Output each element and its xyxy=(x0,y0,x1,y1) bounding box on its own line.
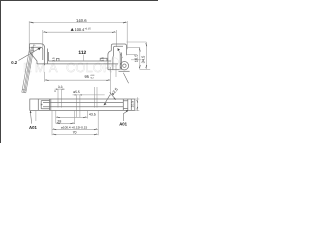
svg-text:3.5: 3.5 xyxy=(101,57,105,62)
svg-text:●5.5: ●5.5 xyxy=(73,90,80,94)
watermark ring xyxy=(110,58,118,66)
dim line 16.5 xyxy=(139,47,141,69)
bar right step tab xyxy=(100,58,107,61)
dim line 95 xyxy=(45,79,111,81)
page border left xyxy=(0,0,2,143)
plan left cap xyxy=(38,99,51,110)
svg-text:140.6: 140.6 xyxy=(76,18,87,23)
right ext lines xyxy=(127,41,147,43)
svg-text:COLOR: COLOR xyxy=(66,60,112,75)
front view right bracket xyxy=(111,44,126,55)
svg-text:10.5: 10.5 xyxy=(130,101,134,108)
plan view outline xyxy=(30,99,135,110)
plan right cap xyxy=(123,99,131,110)
svg-text:⌀100.4 +0.15/-0.15: ⌀100.4 +0.15/-0.15 xyxy=(61,125,87,129)
tilted side view xyxy=(22,45,36,93)
leader 0.2 xyxy=(19,48,41,61)
svg-text:34.5: 34.5 xyxy=(141,55,146,64)
right bracket eye xyxy=(120,61,128,69)
hole centerlines right xyxy=(95,87,97,108)
svg-text:9: 9 xyxy=(54,90,56,93)
svg-text:A01: A01 xyxy=(29,125,37,130)
page border top xyxy=(0,0,158,2)
svg-text:16.5: 16.5 xyxy=(133,54,138,63)
dim 10.5 right xyxy=(135,99,140,110)
dim line 100.4 xyxy=(43,31,116,33)
svg-text:⌀2.5: ⌀2.5 xyxy=(110,86,119,96)
dim line 140.6 xyxy=(29,22,127,24)
under-bar extension lines xyxy=(36,111,98,135)
dim 43.5 xyxy=(56,116,88,118)
svg-text:A01: A01 xyxy=(119,121,127,126)
svg-text:3.3: 3.3 xyxy=(58,85,63,89)
svg-text:70: 70 xyxy=(73,131,77,135)
svg-text:100.4+0.15: 100.4+0.15 xyxy=(75,27,92,32)
front view bar xyxy=(48,60,111,62)
svg-text:3.5: 3.5 xyxy=(51,57,55,62)
svg-text:0.2: 0.2 xyxy=(11,60,17,65)
plan mid lines xyxy=(43,103,123,107)
svg-text:95 +0.4-0.2: 95 +0.4-0.2 xyxy=(85,74,96,80)
dim line 34.5 xyxy=(145,42,147,69)
dim text 100.4 xyxy=(71,28,74,31)
dim 28 xyxy=(56,122,75,124)
leader dia 2.5 xyxy=(104,95,110,105)
svg-text:112: 112 xyxy=(78,50,86,56)
bar left step tab xyxy=(57,58,60,61)
svg-text:28: 28 xyxy=(57,119,61,123)
ext verticals under right bracket xyxy=(110,64,116,96)
front view left bracket xyxy=(29,44,44,65)
svg-text:43.5: 43.5 xyxy=(89,112,96,116)
